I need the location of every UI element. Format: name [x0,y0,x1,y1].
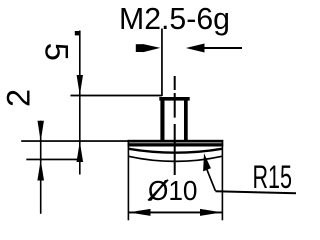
thread dimension right tail wire [204,47,242,49]
dim 2 line [40,121,42,214]
dim 2 lower extension line [26,159,80,161]
svg-text:R15: R15 [253,159,293,195]
thread dimension left arrowhead [143,44,161,52]
thread dimension left tail [136,44,144,52]
stem top edge [159,97,189,101]
diameter slash overshoot [148,180,168,201]
svg-text:Ø10: Ø10 [148,175,198,206]
dim 5 up arrow [77,142,84,162]
stem right edge (thread lines) [184,97,188,141]
dim 2 up arrow [37,160,44,181]
dim 5 line [79,31,81,175]
dim 5 top tick [75,31,79,35]
R15 leader arrowhead [203,153,211,171]
dim 5 down arrow [77,75,83,95]
dim 5 upper extension line [71,95,163,97]
centerline (dash-dot axis) [174,76,176,90]
dim Ø10 right arrow [200,209,222,216]
svg-text:5: 5 [38,43,74,61]
disc second edge line [128,143,224,146]
svg-text:M2.5-6g: M2.5-6g [119,1,230,36]
dim 2 upper extension line [21,140,127,142]
dim Ø10 left arrow [129,209,151,216]
R15 leader horizontal wire [215,191,296,193]
thread dimension right arrowhead [186,44,205,53]
disc face front rim arc [129,149,222,153]
stem left edge (thread lines) [160,97,164,141]
disc right side and extension [222,140,224,220]
disc top edge [128,140,224,143]
thread left extension line [161,29,163,97]
svg-text:2: 2 [0,89,36,107]
dim 2 down arrow [38,121,44,142]
disc face bottom arc R15 [128,156,222,161]
dim Ø10 line [129,212,222,214]
R15 leader shaft [207,169,216,191]
disc left side and extension [128,140,130,220]
